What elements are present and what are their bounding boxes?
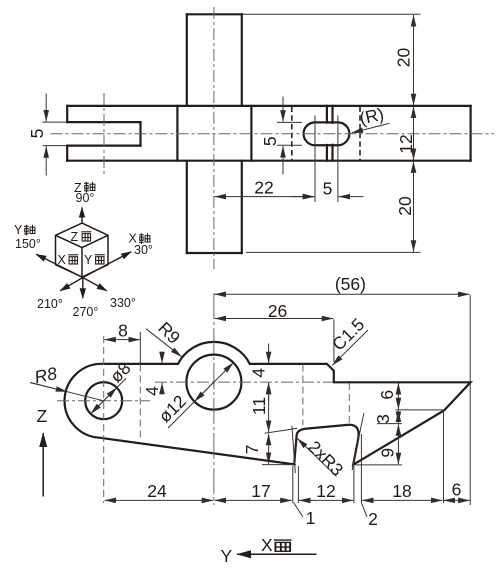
- dim 7 top slanted extension: [265, 428, 298, 433]
- svg-text:7: 7: [242, 445, 262, 455]
- 2xR3 leader: [297, 438, 336, 476]
- svg-text:150°: 150°: [15, 237, 41, 251]
- vertical column top edge: [187, 13, 242, 15]
- column vertical centerline: [213, 7, 215, 269]
- svg-text:(56): (56): [335, 274, 366, 294]
- dim 5 obround: extension lines: [277, 121, 302, 123]
- (R) leader: [352, 123, 390, 133]
- svg-text:26: 26: [268, 301, 287, 321]
- dim 11: line: [268, 383, 270, 432]
- wall thin slant right: [352, 413, 364, 470]
- svg-text:12: 12: [396, 134, 416, 153]
- svg-text:5: 5: [260, 136, 280, 146]
- ext y=409.9: [396, 409, 447, 411]
- svg-text:5: 5: [27, 129, 47, 139]
- groove edge left lower: [326, 145, 328, 161]
- svg-text:Y: Y: [14, 223, 23, 237]
- svg-text:Y: Y: [221, 546, 233, 566]
- ext x=361.4: [360, 434, 362, 503]
- svg-text:Z: Z: [37, 406, 48, 426]
- hidden obround left x=303: [302, 365, 304, 426]
- Y arrow line: [237, 553, 317, 555]
- vertical column bottom edge: [187, 252, 242, 254]
- dim 3: line: [397, 411, 399, 423]
- fork slot right end: [139, 122, 141, 146]
- centerlines top view: [51, 7, 495, 269]
- dim 8: right extension: [139, 332, 141, 364]
- svg-text:4: 4: [248, 368, 268, 378]
- svg-text:20: 20: [394, 48, 414, 68]
- dim 22 line: [215, 196, 315, 198]
- dim (56): line: [215, 293, 470, 295]
- kanji face (X face bottom label): [274, 540, 292, 551]
- axis arrow 330: [83, 278, 107, 291]
- centerline hole8 horizontal: [57, 400, 150, 402]
- ext x=298.4: [297, 466, 299, 503]
- R8 leader: [30, 383, 104, 401]
- svg-text:Z: Z: [71, 230, 79, 244]
- hidden slot end x=140.5: [139, 365, 141, 442]
- vertical column right edge below bar: [241, 161, 243, 253]
- kanji axis (X): [139, 233, 150, 244]
- svg-text:3: 3: [373, 414, 393, 424]
- svg-text:210°: 210°: [37, 297, 63, 311]
- centerline hole12 horizontal: [155, 381, 333, 383]
- groove edge right lower: [331, 145, 333, 161]
- horizontal centerline: [51, 133, 495, 135]
- dim 5 fork: arrow lines: [45, 94, 47, 122]
- svg-text:Y: Y: [84, 253, 93, 267]
- dim 20 bottom line: [413, 161, 415, 251]
- right extension x=470: [469, 295, 471, 505]
- dim 5 bottom arrows: [290, 196, 314, 198]
- Z axis arrow: [42, 433, 44, 497]
- ext x=292.8: [292, 466, 294, 503]
- kanji face (Y face): [95, 255, 105, 264]
- axis arrow 270: [82, 278, 84, 299]
- axis arrow 210: [60, 278, 83, 291]
- svg-text:9: 9: [378, 448, 398, 458]
- dim 26 right extension: [333, 319, 335, 362]
- left fork centerline: [103, 93, 105, 176]
- dia8 diameter line: [91, 378, 126, 413]
- ext x=353.9: [353, 466, 355, 503]
- kanji face (Z face): [81, 232, 91, 241]
- hidden line x=360: [359, 107, 361, 161]
- dim 5 fork: extension lines: [43, 121, 67, 123]
- dim 9: line: [397, 424, 399, 464]
- cube top face: [56, 223, 109, 248]
- dim 17 line: [215, 499, 292, 501]
- bar left edge lower segment: [66, 146, 68, 161]
- dim 8: line: [104, 339, 140, 341]
- thin extension lines through obround: [315, 116, 338, 203]
- ext x=443.5: [443, 411, 445, 504]
- hole dia 8: [85, 382, 122, 419]
- svg-text:330°: 330°: [110, 296, 136, 310]
- inner bar edge left: [176, 106, 178, 161]
- axis arrow X 30: [83, 252, 131, 278]
- svg-text:6: 6: [452, 480, 462, 500]
- svg-text:X: X: [58, 253, 67, 267]
- dim 18 line: [362, 499, 442, 501]
- leader 2: [361, 503, 367, 518]
- bar left edge upper segment: [66, 106, 68, 122]
- svg-text:6: 6: [377, 390, 397, 400]
- leader 1: [294, 503, 304, 518]
- dim 12 line: [413, 107, 415, 160]
- svg-text:2: 2: [368, 509, 378, 529]
- axis arrow Y 150: [36, 254, 83, 277]
- svg-text:24: 24: [147, 481, 167, 501]
- cube labels: [14, 181, 153, 319]
- cube left+right faces: [56, 235, 109, 277]
- dim 4 left: line+arrows: [161, 352, 163, 364]
- centerline hole12 vertical: [213, 293, 215, 505]
- dim right side: bottom extension line: [246, 251, 421, 253]
- hidden lines top view: [292, 107, 360, 161]
- bar right edge: [470, 106, 472, 161]
- dim 20 top line: [413, 15, 415, 105]
- svg-text:11: 11: [249, 397, 269, 415]
- svg-text:30°: 30°: [134, 243, 153, 257]
- groove edge left upper: [326, 106, 328, 123]
- svg-text:4: 4: [142, 386, 162, 396]
- vertical column left edge below bar: [186, 161, 188, 253]
- obround slot (R): [304, 122, 350, 145]
- kanji axis (Z): [84, 182, 95, 193]
- dim 6 bottom line: [444, 499, 470, 501]
- dim right side: top extension line: [242, 13, 421, 15]
- inner bar edge right: [250, 106, 252, 161]
- svg-text:20: 20: [395, 196, 415, 216]
- svg-text:X: X: [261, 535, 273, 555]
- obround left arc center line: [314, 116, 316, 203]
- axis arrow Z 90: [81, 208, 83, 224]
- vertical column left edge above bar: [186, 14, 188, 106]
- dim 12 line: [299, 499, 353, 501]
- dim 5 obround: arrow lines: [282, 97, 284, 122]
- fork slot bottom edge: [67, 145, 140, 147]
- svg-text:270°: 270°: [73, 305, 99, 319]
- dim 7: line: [268, 434, 270, 464]
- hidden obround right x=349: [348, 383, 350, 423]
- dim 24 line: [105, 499, 214, 501]
- dia12 diameter line: [168, 363, 233, 429]
- groove edge right upper: [331, 106, 333, 123]
- horizontal bar bottom edge: [67, 160, 470, 162]
- part outline: [65, 342, 471, 465]
- ext y=464.9 right: [355, 464, 403, 466]
- hole dia 12: [186, 355, 241, 410]
- svg-text:90°: 90°: [76, 191, 95, 205]
- svg-text:18: 18: [392, 481, 411, 501]
- ext y=423.6: [377, 423, 402, 425]
- svg-text:17: 17: [251, 481, 270, 501]
- hidden line x=291.8: [291, 107, 293, 161]
- svg-text:1: 1: [306, 508, 316, 528]
- svg-text:22: 22: [254, 178, 273, 198]
- svg-text:12: 12: [316, 481, 335, 501]
- centerline hole8 vertical dashed: [103, 336, 105, 503]
- R9 leader: [146, 329, 182, 357]
- dim 7 bottom extension: [262, 464, 296, 466]
- kanji face (X face): [68, 255, 78, 264]
- horizontal bar top edge: [67, 105, 470, 107]
- fork slot top edge: [67, 121, 140, 123]
- kanji axis (Y): [24, 225, 35, 236]
- vertical column right edge above bar: [241, 14, 243, 106]
- svg-text:8: 8: [118, 321, 128, 341]
- dim 26: line: [215, 318, 334, 320]
- dim 4 right arrows: [268, 344, 270, 364]
- wall thin slant left: [292, 426, 295, 473]
- C1.5 leader: [332, 330, 368, 365]
- dim 6 right: line: [397, 383, 399, 409]
- obround right arc center line: [337, 116, 339, 203]
- svg-text:5: 5: [323, 179, 333, 199]
